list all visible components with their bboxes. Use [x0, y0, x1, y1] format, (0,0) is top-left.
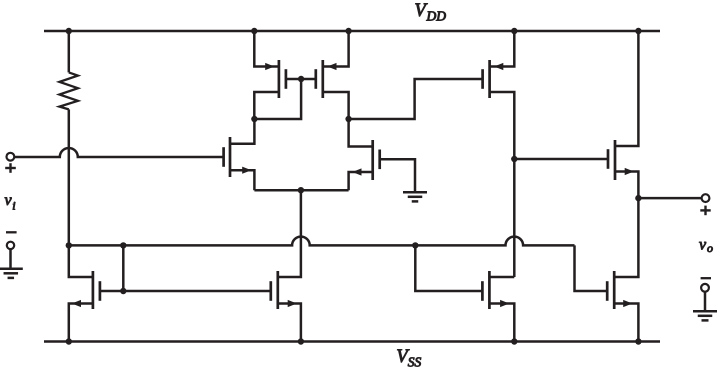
svg-text:SS: SS — [408, 354, 422, 369]
svg-text:DD: DD — [426, 9, 447, 24]
svg-text:i: i — [12, 199, 15, 213]
svg-text:o: o — [707, 241, 713, 255]
svg-text:v: v — [5, 192, 13, 209]
svg-text:v: v — [699, 237, 707, 254]
